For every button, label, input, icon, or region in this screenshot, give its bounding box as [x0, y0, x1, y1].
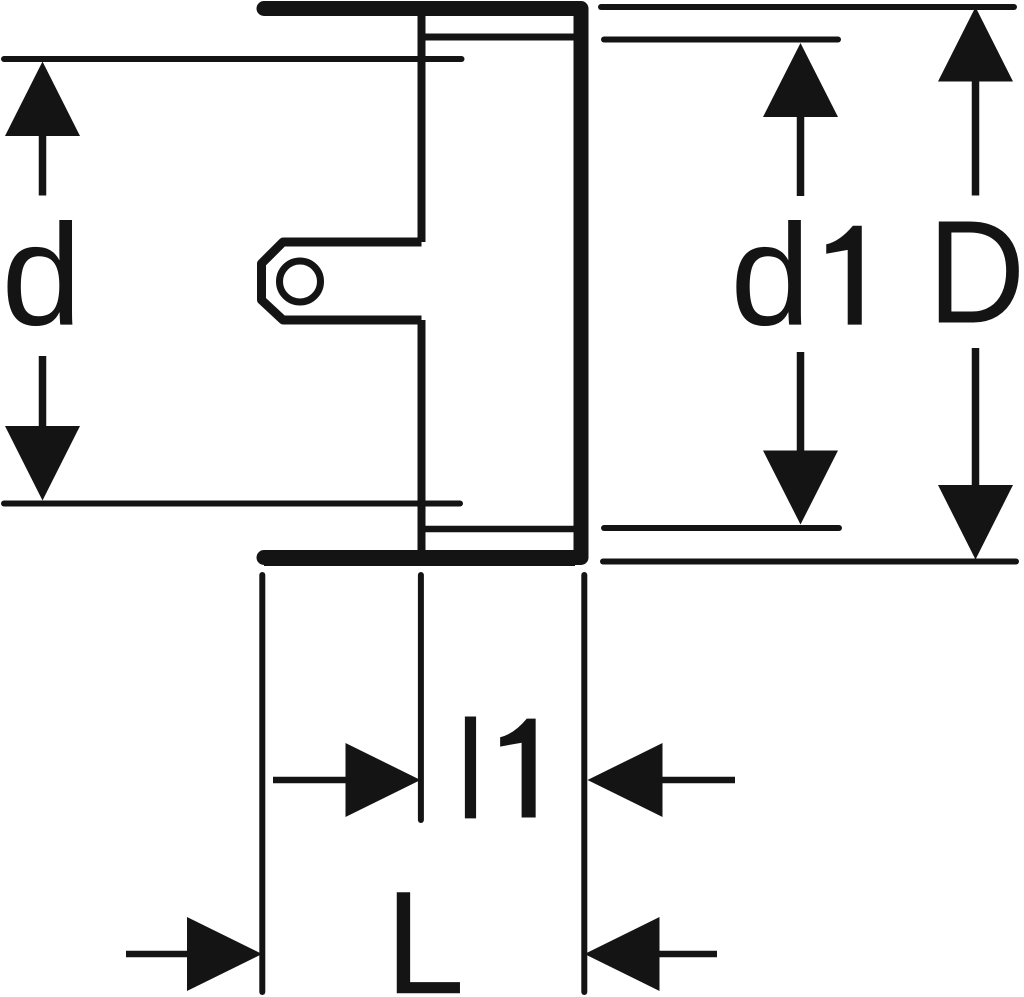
arrowhead D down: [938, 485, 1013, 560]
extension line d top: [4, 56, 462, 62]
cap outer bottom wall extra weight: [264, 550, 575, 566]
extension line d1 bottom: [604, 525, 839, 531]
dim d1 shaft lower: [797, 352, 805, 455]
dim L shaft left: [126, 951, 200, 958]
arrowhead l1 left pointing right: [346, 743, 421, 817]
dim d shaft upper: [39, 130, 47, 196]
label d1 digit 1: [826, 226, 862, 325]
extension line D bottom: [603, 559, 1016, 565]
seal groove pocket: [262, 242, 422, 320]
arrowhead d1 down: [763, 451, 838, 525]
extension line vertical left L: [259, 575, 265, 992]
dim L shaft right: [655, 951, 717, 958]
arrowhead d1 up: [763, 43, 838, 117]
label l1 letter l: [465, 716, 476, 818]
dim d shaft lower: [39, 356, 47, 430]
arrowhead L right pointing left: [585, 917, 660, 991]
socket inner top line: [422, 34, 577, 41]
label D: [939, 221, 1019, 322]
arrowhead l1 right pointing left: [588, 743, 663, 817]
socket inner vertical line upper: [418, 14, 426, 242]
cap outer wall outline: [264, 9, 581, 558]
extension line d bottom: [4, 501, 460, 507]
label L: [397, 892, 460, 993]
dim D shaft lower: [972, 348, 980, 490]
extension line d1 top: [604, 37, 838, 43]
dim d1 shaft upper: [797, 112, 805, 196]
dim l1 shaft right: [657, 777, 735, 784]
socket inner vertical line lower: [418, 320, 426, 552]
dim l1 shaft left: [273, 777, 350, 784]
arrowhead d up: [5, 62, 80, 137]
arrowhead L left pointing right: [187, 917, 262, 991]
socket inner bottom line: [423, 526, 576, 533]
extension line D top: [601, 4, 1014, 10]
label d1 letter d: [736, 220, 801, 326]
extension line vertical middle l1: [418, 575, 424, 820]
o-ring seal circle: [280, 261, 321, 302]
extension line vertical right: [581, 575, 587, 992]
arrowhead d down: [5, 426, 80, 501]
arrowhead D up: [938, 7, 1013, 82]
dim D shaft upper: [972, 77, 980, 196]
label d: [8, 220, 73, 326]
label l1 digit 1: [500, 719, 536, 818]
